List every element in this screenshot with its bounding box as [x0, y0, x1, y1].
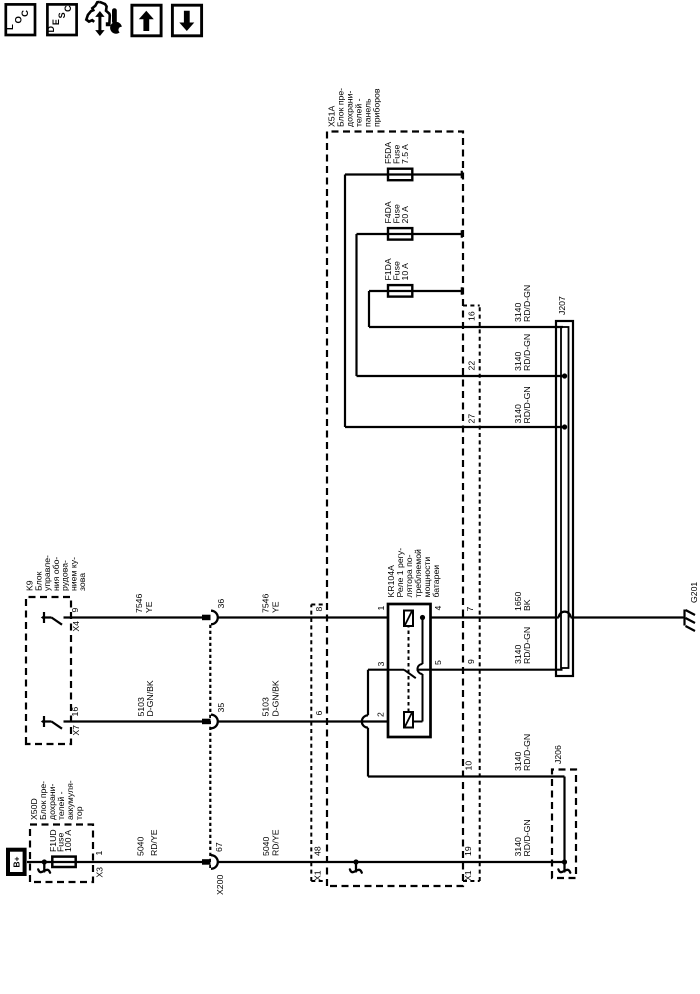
svg-text:4: 4 [433, 606, 443, 611]
svg-text:10 A: 10 A [400, 263, 410, 281]
double arrow of vehicle icon [95, 11, 104, 36]
svg-text:тор: тор [74, 806, 84, 820]
fuse F5DA body [388, 169, 412, 181]
dashed wire to ground [655, 617, 684, 619]
relay terminal hook [418, 664, 423, 674]
fuse F1DA body [388, 285, 412, 297]
wire 3140 RD/D-GN pin10 branch J206 to relay pin3 [563, 777, 565, 863]
svg-text:S: S [57, 12, 67, 18]
fuse block X50D dashed box [30, 825, 93, 883]
continuation squiggle X50D [38, 862, 50, 873]
relay junction dot pins 1-4 [420, 615, 425, 620]
svg-text:RD/D-GN: RD/D-GN [522, 627, 532, 664]
svg-text:RD/YE: RD/YE [149, 829, 159, 856]
inline connector X200 dashed link [209, 624, 211, 868]
svg-text:20 A: 20 A [400, 206, 410, 224]
battery B+ terminal [8, 850, 25, 874]
wire label 1650 BK pin7 [513, 592, 532, 611]
wire 3140 RD/D-GN fuse F4DA to pin22 to J207 [355, 234, 357, 376]
svg-text:BK: BK [522, 599, 532, 611]
X200 terminal on feed wire [202, 859, 211, 865]
svg-text:YE: YE [144, 601, 154, 613]
K9 driver switch for X4-9 output [44, 612, 62, 625]
wire 5103 D-GN/BK K9 X7-16 to relay pin2 [64, 720, 203, 722]
svg-text:YE: YE [271, 601, 281, 613]
svg-text:RD/D-GN: RD/D-GN [522, 334, 532, 371]
svg-text:приборов: приборов [372, 88, 382, 127]
svg-text:48: 48 [313, 846, 323, 856]
svg-text:X200: X200 [215, 875, 225, 895]
svg-text:B+: B+ [11, 856, 21, 867]
J207 junction dot wire 27 [562, 424, 567, 429]
wire label 3140 RD/D-GN pin16 [513, 285, 532, 322]
X50D block label [29, 780, 84, 820]
svg-text:X4: X4 [71, 621, 81, 632]
svg-text:X3: X3 [95, 867, 105, 878]
toolbar icons overlay (portrait orientation) [0, 0, 700, 60]
K9 block label [25, 555, 88, 591]
svg-text:16: 16 [70, 707, 80, 717]
svg-text:5040: 5040 [261, 837, 271, 856]
connector X1 bottom row dotted line [463, 306, 480, 882]
svg-text:RD/D-GN: RD/D-GN [522, 386, 532, 423]
relay contact arm pin 3 [404, 670, 416, 679]
svg-text:67: 67 [214, 842, 224, 852]
svg-text:7: 7 [465, 607, 475, 612]
wire label 3140 RD/D-GN pin10 [513, 734, 532, 771]
wire 3140 RD/D-GN relay pin5 to J207 [417, 669, 563, 671]
svg-text:J207: J207 [557, 296, 567, 315]
wire label 3140 RD/D-GN pin19 [513, 819, 532, 856]
svg-text:RD/D-GN: RD/D-GN [522, 734, 532, 771]
svg-text:RD/D-GN: RD/D-GN [522, 285, 532, 322]
X200 terminal on 7546 wire [202, 615, 211, 621]
relay KR104A label [386, 548, 441, 598]
J206 junction dot [562, 859, 567, 864]
relay mechanical dashed link [408, 626, 410, 712]
down arrow button [172, 5, 201, 36]
svg-text:5103: 5103 [261, 697, 271, 716]
wire label 3140 RD/D-GN pin27 [513, 386, 532, 423]
svg-text:10: 10 [464, 761, 474, 771]
wire label 3140 RD/D-GN pin22 [513, 334, 532, 371]
svg-text:L: L [5, 24, 16, 30]
wire label 5103 D-GN/BK upper [136, 680, 155, 716]
svg-text:зова: зова [77, 573, 87, 591]
svg-text:2: 2 [376, 712, 386, 717]
wrench of vehicle icon [110, 11, 125, 34]
K9 driver switch for X7-16 output [44, 716, 62, 729]
svg-text:36: 36 [216, 599, 226, 609]
svg-text:5: 5 [433, 660, 443, 665]
continuation squiggle J206 [558, 862, 570, 873]
wire 3140 RD/D-GN fuse F1DA to pin16 to J207 [368, 291, 370, 327]
svg-text:G201: G201 [689, 582, 699, 603]
fuse F4DA vertical wire [357, 233, 463, 235]
relay coil A (pins 1-4) [404, 611, 413, 627]
wire label 7546 YE upper [134, 594, 154, 613]
wire label 5103 D-GN/BK lower [261, 680, 281, 716]
relay contact stem pin2 side [413, 721, 423, 723]
BCM K9 dashed box [26, 597, 71, 744]
svg-text:22: 22 [467, 361, 477, 371]
svg-text:X7: X7 [71, 725, 81, 736]
ground G201 symbol [685, 610, 696, 632]
svg-text:1: 1 [376, 606, 386, 611]
relay contact stem to pin1 line [422, 618, 424, 665]
wire 1650 BK relay pin4 to G201 [431, 616, 559, 618]
DESC button [47, 4, 76, 35]
svg-text:батареи: батареи [431, 565, 441, 598]
svg-text:X1: X1 [313, 870, 323, 881]
wire label 5040 RD/YE lower [261, 829, 281, 856]
svg-text:E: E [51, 19, 61, 25]
fuse F4DA body [388, 228, 412, 240]
svg-text:7.5 A: 7.5 A [400, 144, 410, 164]
continuation squiggle X51A [350, 862, 362, 873]
wire 7546 YE K9 X4-9 to relay pin1 [64, 616, 203, 618]
splice J206 dashed box [552, 770, 576, 879]
LOC button [6, 4, 35, 35]
svg-text:9: 9 [70, 608, 80, 613]
svg-text:X1: X1 [463, 870, 473, 881]
svg-text:RD/D-GN: RD/D-GN [522, 819, 532, 856]
connector X1 top row dotted line [311, 605, 327, 882]
svg-text:7546: 7546 [261, 594, 271, 613]
relay coil B (pin 2) [404, 712, 413, 728]
fuse F1UD [52, 857, 75, 867]
wire label 7546 YE lower [261, 594, 281, 613]
svg-text:100 A: 100 A [63, 830, 73, 852]
relay KR104A box [388, 604, 431, 737]
fuse F1UD label [48, 829, 73, 852]
svg-text:D-GN/BK: D-GN/BK [271, 680, 281, 716]
fuse block X51A dashed box [327, 132, 463, 887]
svg-text:3: 3 [376, 662, 386, 667]
svg-text:16: 16 [467, 311, 477, 321]
svg-text:C: C [20, 10, 31, 17]
svg-text:19: 19 [463, 846, 473, 856]
J207 junction dot wire 22 [562, 373, 567, 378]
svg-text:C: C [63, 5, 73, 12]
fuse F1DA vertical wire [369, 290, 462, 292]
wire label 3140 RD/D-GN pin9 [513, 627, 532, 664]
X200 terminal on 5103 wire [202, 719, 211, 725]
svg-text:RD/YE: RD/YE [271, 829, 281, 856]
svg-text:1: 1 [94, 851, 104, 856]
svg-text:35: 35 [216, 703, 226, 713]
wire label 5040 RD/YE upper [136, 829, 160, 856]
svg-text:6: 6 [314, 711, 324, 716]
fuse F5DA vertical wire [345, 173, 462, 175]
up arrow button [132, 5, 161, 36]
fuse F1DA label [383, 258, 410, 280]
wire battery feed 5040 RD/YE from B+ down [27, 861, 202, 863]
wire 3140 RD/D-GN fuse F5DA to pin27 to J207 [344, 175, 346, 428]
fuse F5DA label [383, 142, 410, 164]
svg-text:9: 9 [466, 659, 476, 664]
svg-text:27: 27 [467, 414, 477, 424]
splice dot in X51A [353, 859, 358, 864]
svg-text:D: D [46, 26, 56, 33]
fuse F4DA label [383, 201, 410, 223]
svg-text:7546: 7546 [134, 594, 144, 613]
svg-text:J206: J206 [553, 745, 563, 764]
svg-text:D-GN/BK: D-GN/BK [145, 680, 155, 716]
splice dot in X50D [42, 859, 47, 864]
svg-text:8: 8 [314, 607, 324, 612]
vehicle navigate icon [86, 2, 110, 25]
X51A block label [327, 88, 382, 127]
splice pack J207 bus bar [556, 321, 573, 676]
svg-text:5040: 5040 [136, 837, 146, 856]
